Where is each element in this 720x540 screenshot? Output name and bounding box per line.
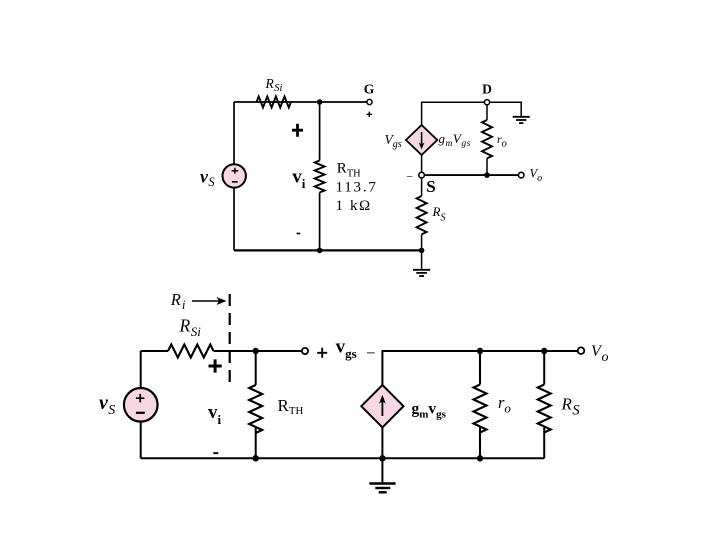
wire RS bottom stub xyxy=(543,428,545,459)
plus sign Vi (bottom) xyxy=(209,359,222,372)
label RS (top circuit) xyxy=(432,204,446,224)
svg-text:D: D xyxy=(482,82,492,97)
svg-text:RSi: RSi xyxy=(265,76,283,94)
svg-text:Vo: Vo xyxy=(591,343,608,365)
voltage source vs (top) xyxy=(223,164,246,187)
plus of vgs xyxy=(317,348,327,358)
svg-text:gmVgs: gmVgs xyxy=(439,131,471,149)
ground (top circuit bottom) xyxy=(413,250,430,276)
dependent source gmVgs diamond (top circuit) xyxy=(406,125,437,155)
minus of vgs xyxy=(366,343,376,362)
label vs (bottom) xyxy=(99,392,115,418)
resistor RTH (bottom circuit) xyxy=(249,385,262,433)
resistor RS (top circuit) xyxy=(417,196,427,234)
node dot top middle xyxy=(317,99,323,105)
label RTH value (top) xyxy=(336,161,378,214)
terminal Vo (bottom circuit) xyxy=(578,347,585,354)
label RS (bottom) xyxy=(561,395,581,419)
svg-text:ro: ro xyxy=(497,132,507,150)
label vgs xyxy=(336,336,357,361)
terminal S xyxy=(419,172,425,178)
wire D down to ro xyxy=(486,105,488,120)
resistor ro (bottom circuit) xyxy=(474,385,487,433)
node dot vgs rail at ro xyxy=(477,348,483,354)
node dot diamond bottom xyxy=(379,455,385,461)
label Vo (bottom) xyxy=(591,343,608,365)
wire RS top stub xyxy=(543,351,545,385)
svg-text:Vgs: Vgs xyxy=(385,132,402,150)
label RTH (bottom) xyxy=(278,396,304,417)
node dot RS top xyxy=(541,348,547,354)
wire middle branch lower xyxy=(319,193,321,251)
arrow Ri to dashed line xyxy=(192,297,227,305)
wire diamond bottom to S xyxy=(421,155,423,172)
minus sign Vi bottom (bottom circuit) xyxy=(213,452,218,454)
wire ro bottom to S rail xyxy=(486,158,488,175)
resistor RSi (bottom circuit) xyxy=(168,345,214,358)
wire S down to RS xyxy=(421,178,423,196)
svg-text:RTH: RTH xyxy=(337,161,361,180)
label vs (top) xyxy=(200,167,215,189)
label D xyxy=(482,82,492,97)
svg-text:RS: RS xyxy=(561,395,581,419)
svg-text:vS: vS xyxy=(200,167,215,189)
svg-text:−: − xyxy=(366,343,376,362)
wire S rail to Vo xyxy=(424,174,518,176)
wire RSi to open terminal xyxy=(214,350,303,352)
svg-text:−: − xyxy=(406,169,413,183)
svg-text:vS: vS xyxy=(99,392,115,418)
label G xyxy=(364,82,375,97)
terminal D xyxy=(484,100,489,105)
node dot RTH bottom xyxy=(253,455,259,461)
label Ri xyxy=(170,290,186,312)
svg-text:vi: vi xyxy=(292,167,306,192)
svg-text:RS: RS xyxy=(432,204,446,224)
wire diamond top to vgs rail xyxy=(382,351,578,385)
label Vi (top) xyxy=(292,167,306,192)
wire vs bottom to rail xyxy=(233,188,235,251)
node dot ro bottom xyxy=(477,455,483,461)
label gmvgs xyxy=(412,401,447,421)
svg-text:Ri: Ri xyxy=(170,290,186,312)
voltage source vs (bottom) xyxy=(124,388,158,422)
minus sign Vi bottom (top circuit) xyxy=(297,233,301,235)
label ro (top circuit) xyxy=(497,132,507,150)
resistor RTH (top circuit) xyxy=(315,161,325,193)
svg-text:Vo: Vo xyxy=(530,167,543,184)
wire middle branch upper (node to RTH) xyxy=(319,102,321,161)
wire diamond bottom to rail xyxy=(381,427,383,458)
plus under G xyxy=(367,112,372,117)
svg-text:gmvgs: gmvgs xyxy=(412,401,447,421)
bottom rail (bottom circuit) xyxy=(141,457,545,459)
wire ro bottom stub xyxy=(479,428,481,459)
terminal G xyxy=(367,99,372,104)
label Vi (bottom) xyxy=(208,402,222,427)
wire diamond top to D rail xyxy=(422,102,485,125)
wire vs bottom to rail (bottom circuit) xyxy=(140,422,142,459)
svg-text:vgs: vgs xyxy=(336,336,357,361)
node dot bottom middle xyxy=(317,248,323,254)
wire RTH top stub xyxy=(255,351,257,385)
label Vgs (top circuit) xyxy=(385,132,402,150)
plus sign Vi top xyxy=(292,124,303,137)
wire vs top to RSi (bottom) xyxy=(141,350,168,352)
svg-text:vi: vi xyxy=(208,402,222,427)
terminal open circle (bottom left) xyxy=(302,348,308,354)
wire ro top stub xyxy=(479,351,481,385)
label gmVgs (top circuit) xyxy=(439,131,471,149)
wire D to ground stub (top right) xyxy=(490,102,522,116)
label S xyxy=(426,177,435,196)
label Vo (top circuit) xyxy=(530,167,543,184)
resistor ro (top circuit) xyxy=(482,120,492,158)
label RSi (bottom) xyxy=(179,316,202,339)
label ro (bottom) xyxy=(498,393,511,416)
minus left of S xyxy=(406,169,413,183)
dependent source gmvgs diamond (bottom circuit) xyxy=(361,385,403,427)
wire RTH bottom stub xyxy=(255,428,257,458)
wire RS bottom to rail xyxy=(421,234,423,250)
svg-text:ro: ro xyxy=(498,393,511,416)
node dot ro bottom xyxy=(484,172,490,178)
svg-text:S: S xyxy=(426,177,435,196)
svg-text:RSi: RSi xyxy=(179,316,202,339)
ground (bottom circuit) xyxy=(369,458,395,492)
svg-text:1 kΩ: 1 kΩ xyxy=(336,198,372,214)
dashed boundary line xyxy=(229,294,231,385)
node dot RTH top xyxy=(253,348,259,354)
svg-text:G: G xyxy=(364,82,375,97)
wire vs top branch xyxy=(140,351,142,388)
ground (top right) xyxy=(513,117,530,123)
resistor RS (bottom circuit) xyxy=(538,385,551,433)
wire top-left horizontal (vs top to G) xyxy=(234,101,367,103)
svg-text:RTH: RTH xyxy=(278,396,304,417)
wire bottom rail (top circuit) xyxy=(234,249,422,251)
label RSi (top) xyxy=(265,76,283,94)
node dot bottom right (top circuit) xyxy=(419,248,425,254)
resistor RSi (top circuit) xyxy=(257,97,291,108)
svg-text:113.7: 113.7 xyxy=(336,180,378,196)
wire left branch of vs xyxy=(233,102,235,165)
terminal Vo (top circuit) xyxy=(518,172,524,178)
